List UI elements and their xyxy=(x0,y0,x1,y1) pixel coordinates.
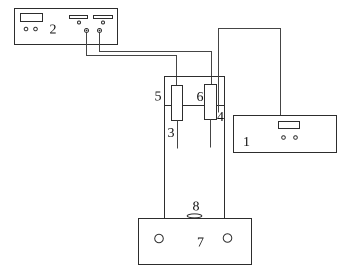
svg-text:8: 8 xyxy=(193,200,200,215)
svg-text:4: 4 xyxy=(217,110,224,125)
terminal T2 of U2 xyxy=(98,29,102,33)
label 6 xyxy=(197,90,204,105)
lead tip below electrode 6 xyxy=(210,120,212,148)
electrode 5 body xyxy=(172,86,183,121)
label 2 xyxy=(50,23,57,38)
knob B of U1 xyxy=(294,136,298,140)
svg-text:5: 5 xyxy=(155,89,162,104)
svg-text:2: 2 xyxy=(50,23,57,38)
indicator circle A of box 7 xyxy=(155,234,164,243)
svg-text:3: 3 xyxy=(168,126,175,141)
label 7 xyxy=(197,236,204,251)
knob A of U2 xyxy=(24,27,28,31)
label 8 xyxy=(193,200,200,215)
screw A of U2 xyxy=(78,21,81,24)
display window of U2 xyxy=(21,14,43,22)
svg-text:7: 7 xyxy=(197,236,204,251)
svg-text:1: 1 xyxy=(243,135,250,150)
electrode 4 lead wire to box U1 xyxy=(219,29,281,116)
terminal T1 of U2 xyxy=(85,29,89,33)
base box 7 (stirrer base) xyxy=(139,219,252,265)
vessel column (cell body) xyxy=(165,77,225,219)
label 4 xyxy=(217,110,224,125)
vent slot B of U2 xyxy=(94,16,113,19)
display window of U1 xyxy=(279,122,300,129)
screw B of U2 xyxy=(102,21,105,24)
instrument box U1 (meter unit) xyxy=(234,116,337,153)
label 5 xyxy=(155,89,162,104)
vent slot A of U2 xyxy=(70,16,88,19)
stirrer bar 8 (ellipse) xyxy=(187,214,202,218)
lead tip below electrode 5 xyxy=(177,121,179,149)
knob A of U1 xyxy=(282,136,286,140)
liquid level line in column xyxy=(165,105,225,107)
instrument box U2 (power supply unit) xyxy=(15,9,118,45)
label 1 xyxy=(243,135,250,150)
wire from terminal T2 to electrode 6 xyxy=(100,33,212,85)
svg-text:6: 6 xyxy=(197,90,204,105)
indicator circle B of box 7 xyxy=(223,234,232,243)
electrode 6 body xyxy=(205,85,217,120)
knob B of U2 xyxy=(34,27,38,31)
wire from terminal T1 to electrode 5 xyxy=(87,33,177,86)
label 3 xyxy=(168,126,175,141)
